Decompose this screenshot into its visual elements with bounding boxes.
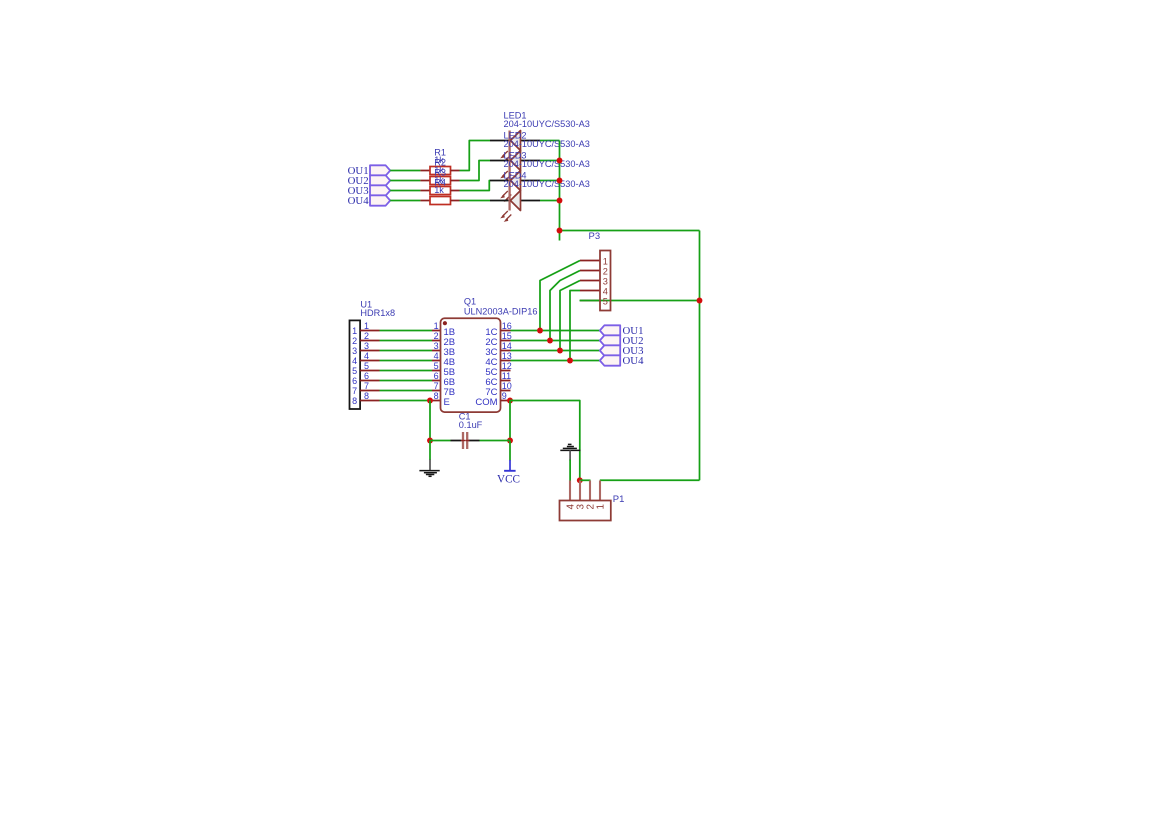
svg-text:VCC: VCC xyxy=(497,473,520,485)
wire COM to C1 xyxy=(509,401,511,441)
pin Q1.10 xyxy=(501,390,511,392)
svg-text:8: 8 xyxy=(352,396,357,406)
net label OU3 (right) xyxy=(600,345,644,357)
pin R1.1 xyxy=(420,170,430,172)
pin Q1.14 xyxy=(501,350,511,352)
junction P1 xyxy=(577,477,583,483)
wire OU3 to R3 xyxy=(390,190,420,192)
svg-text:204-10UYC/S530-A3: 204-10UYC/S530-A3 xyxy=(504,139,590,149)
svg-text:0.1uF: 0.1uF xyxy=(459,420,483,430)
net label OU2 (right) xyxy=(600,335,644,347)
svg-text:13: 13 xyxy=(502,351,512,361)
svg-text:1: 1 xyxy=(603,257,608,267)
svg-text:E: E xyxy=(444,397,450,408)
LED2 symbol xyxy=(490,151,540,182)
svg-text:2: 2 xyxy=(434,331,439,341)
wire LED4 to bus xyxy=(540,200,560,202)
svg-text:OU4: OU4 xyxy=(623,355,645,367)
wire 4C to OU4 xyxy=(511,360,600,362)
junction C1 right xyxy=(507,438,513,444)
svg-text:11: 11 xyxy=(502,371,511,381)
svg-text:8: 8 xyxy=(364,391,369,401)
svg-text:6: 6 xyxy=(364,371,369,381)
svg-text:204-10UYC/S530-A3: 204-10UYC/S530-A3 xyxy=(504,159,590,169)
svg-text:ULN2003A-DIP16: ULN2003A-DIP16 xyxy=(464,307,538,317)
junction 4C tap xyxy=(567,358,573,364)
svg-text:1k: 1k xyxy=(434,185,444,195)
connector P1 xyxy=(560,481,625,521)
svg-text:15: 15 xyxy=(502,331,512,341)
net label OU4 (right) xyxy=(600,355,644,367)
svg-text:4: 4 xyxy=(364,351,369,361)
resistor R3 1k xyxy=(430,168,460,195)
junction 1C tap xyxy=(537,328,543,334)
pin R4.1 xyxy=(420,200,430,202)
wire 2C to OU2 xyxy=(511,340,600,342)
junction P3.5/right bus xyxy=(697,298,703,304)
wire P3.4 to 4C xyxy=(570,291,580,361)
junction 3C tap xyxy=(557,348,563,354)
wire E to C1 xyxy=(429,401,431,441)
net label OU3 (left) xyxy=(348,185,391,197)
wire P3.2 to 2C xyxy=(550,271,580,341)
wire P3.1 to 1C xyxy=(540,261,580,331)
wire R4 to LED4 xyxy=(460,200,491,202)
svg-text:5: 5 xyxy=(434,361,439,371)
svg-text:1: 1 xyxy=(364,321,369,331)
LED4 labels xyxy=(504,171,590,190)
svg-text:1: 1 xyxy=(434,321,439,331)
svg-text:204-10UYC/S530-A3: 204-10UYC/S530-A3 xyxy=(504,119,590,129)
net label OU2 (left) xyxy=(348,175,391,187)
pin Q1.16 xyxy=(501,330,511,332)
wire C1 to GND xyxy=(429,441,431,461)
svg-text:6: 6 xyxy=(352,376,357,386)
net label OU1 (right) xyxy=(600,325,644,337)
wire OU4 to R4 xyxy=(390,200,420,202)
svg-text:4: 4 xyxy=(603,287,608,297)
wire LED bus vertical xyxy=(559,141,561,241)
svg-text:P3: P3 xyxy=(589,231,601,242)
junction bus corner xyxy=(557,228,563,234)
LED4 symbol xyxy=(490,191,540,222)
pin R2.1 xyxy=(420,180,430,182)
wire COM to VCC xyxy=(509,441,511,461)
svg-text:204-10UYC/S530-A3: 204-10UYC/S530-A3 xyxy=(504,179,590,189)
svg-text:OU4: OU4 xyxy=(348,195,370,207)
capacitor C1 0.1uF xyxy=(451,411,483,449)
svg-text:6: 6 xyxy=(434,371,439,381)
junction Q1.COM xyxy=(507,398,513,404)
svg-text:1: 1 xyxy=(352,326,357,336)
LED1 symbol xyxy=(490,131,540,162)
wire U1.6 to Q1.6 xyxy=(360,371,440,381)
wire R3 to LED3 xyxy=(460,181,491,191)
wire P3.5 to right bus xyxy=(580,300,700,302)
wire C1 right xyxy=(480,440,511,442)
svg-text:7: 7 xyxy=(434,381,439,391)
wire U1.3 to Q1.3 xyxy=(360,341,440,351)
pin Q1.12 xyxy=(501,370,511,372)
header U1 HDR1x8 xyxy=(350,299,396,409)
svg-text:7: 7 xyxy=(364,381,369,391)
svg-text:12: 12 xyxy=(502,361,512,371)
ground symbol GND1 xyxy=(419,460,439,477)
connector P3 xyxy=(589,231,611,311)
pin Q1.11 xyxy=(501,380,511,382)
svg-text:4: 4 xyxy=(352,356,357,366)
wire LED3 to bus xyxy=(540,180,560,182)
svg-text:8: 8 xyxy=(434,391,439,401)
junction LED3 xyxy=(557,178,563,184)
net label OU1 (left) xyxy=(348,165,391,177)
svg-text:3: 3 xyxy=(352,346,357,356)
svg-text:3: 3 xyxy=(603,277,608,287)
pin Q1.15 xyxy=(501,340,511,342)
resistor R1 1k xyxy=(430,148,460,175)
connector P3 pins xyxy=(580,261,600,301)
wire U1.7 to Q1.7 xyxy=(360,381,440,391)
power symbol VCC xyxy=(497,460,520,485)
IC Q1 ULN2003A-DIP16 xyxy=(441,297,538,412)
svg-text:2: 2 xyxy=(352,336,357,346)
svg-text:10: 10 xyxy=(502,381,512,391)
wire OU2 to R2 xyxy=(390,180,420,182)
pin Q1.9 xyxy=(501,400,511,402)
wire 1C to OU1 xyxy=(511,330,600,332)
svg-text:Q1: Q1 xyxy=(464,297,476,307)
svg-text:5: 5 xyxy=(364,361,369,371)
resistor R2 1k xyxy=(430,158,460,185)
svg-text:5: 5 xyxy=(352,366,357,376)
wire P3.3 to 3C xyxy=(560,281,580,351)
wire LED2 to bus xyxy=(540,160,560,162)
wire U1.5 to Q1.5 xyxy=(360,361,440,371)
pin Q1.13 xyxy=(501,360,511,362)
wire R1 to LED1 xyxy=(460,141,491,171)
wire U1.1 to Q1.1 xyxy=(360,321,440,331)
wire right bus vertical xyxy=(699,231,701,481)
pin R3.1 xyxy=(420,190,430,192)
svg-text:COM: COM xyxy=(475,397,497,408)
svg-text:3: 3 xyxy=(364,341,369,351)
wire junction to P1.2 xyxy=(580,479,591,481)
junction 2C tap xyxy=(547,338,553,344)
wire U1.4 to Q1.4 xyxy=(360,351,440,361)
wire C1 left xyxy=(430,440,451,442)
wire R2 to LED2 xyxy=(460,161,491,181)
wire U1.8 to Q1.8 xyxy=(360,391,440,401)
LED2 labels xyxy=(504,131,590,150)
wire bus to right xyxy=(560,230,700,232)
ground symbol GND2 xyxy=(560,444,580,460)
LED1 labels xyxy=(504,111,590,130)
svg-text:4: 4 xyxy=(434,351,439,361)
svg-text:3: 3 xyxy=(434,341,439,351)
svg-text:HDR1x8: HDR1x8 xyxy=(360,308,395,318)
svg-text:14: 14 xyxy=(502,341,512,351)
LED3 symbol xyxy=(490,171,540,202)
svg-text:2: 2 xyxy=(603,267,608,277)
svg-text:5: 5 xyxy=(603,297,608,307)
junction U1.8/E row xyxy=(427,398,433,404)
wire LED1 to bus xyxy=(540,140,560,142)
wire P1.1 to right bus xyxy=(600,479,700,481)
svg-text:1: 1 xyxy=(596,504,607,509)
wire 3C to OU3 xyxy=(511,350,600,352)
svg-text:9: 9 xyxy=(502,391,507,401)
wire U1.2 to Q1.2 xyxy=(360,331,440,341)
junction LED4 xyxy=(557,198,563,204)
svg-text:P1: P1 xyxy=(613,494,625,505)
svg-text:2: 2 xyxy=(364,331,369,341)
wire GND2 to P1.4 xyxy=(569,460,571,481)
svg-text:16: 16 xyxy=(502,321,512,331)
wire OU1 to R1 xyxy=(390,170,420,172)
svg-text:7: 7 xyxy=(352,386,357,396)
junction C1 left xyxy=(427,438,433,444)
junction LED2 xyxy=(557,158,563,164)
net label OU4 (left) xyxy=(348,195,391,207)
wire COM to P1 xyxy=(510,401,580,481)
LED3 labels xyxy=(504,151,590,170)
resistor R4 1k xyxy=(430,178,460,205)
